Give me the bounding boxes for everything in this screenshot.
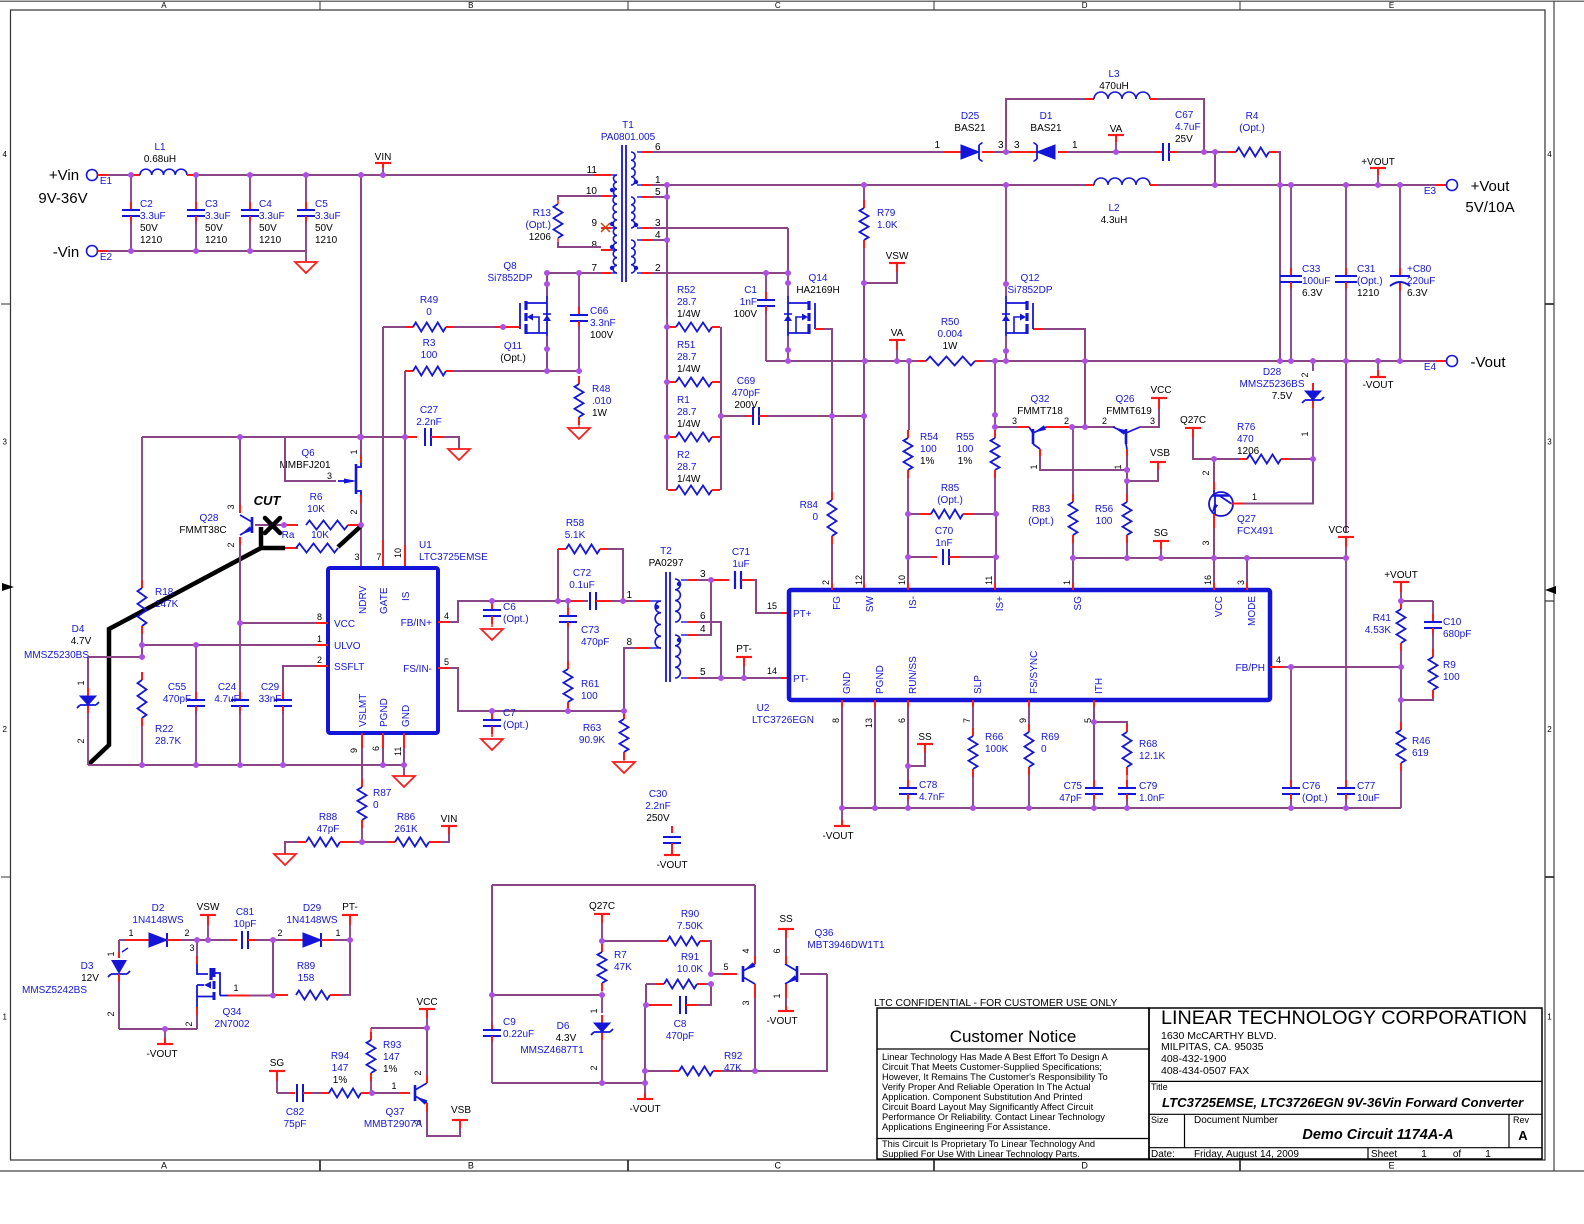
capacitor C5: [297, 175, 341, 251]
port E1 +Vin: [38, 167, 112, 207]
svg-text:2: 2: [1300, 372, 1310, 377]
wire U1 FB/IN+ pin4: [438, 601, 492, 622]
svg-text:7: 7: [962, 718, 972, 723]
svg-text:E: E: [1389, 1, 1394, 10]
svg-text:C73: C73: [581, 625, 600, 636]
svg-text:1: 1: [233, 983, 238, 993]
capacitor C76: [1282, 667, 1328, 808]
svg-text:R41: R41: [1373, 613, 1392, 624]
svg-text:470pF: 470pF: [163, 694, 191, 705]
svg-text:1: 1: [391, 1081, 396, 1091]
svg-text:7.5V: 7.5V: [1272, 391, 1293, 402]
svg-text:408-432-1900: 408-432-1900: [1161, 1053, 1227, 1065]
svg-text:(Opt.): (Opt.): [1028, 516, 1054, 527]
svg-text:R49: R49: [420, 295, 439, 306]
svg-text:28.7: 28.7: [677, 352, 697, 363]
svg-text:2: 2: [2, 725, 7, 734]
svg-text:3: 3: [700, 569, 706, 580]
wire T2 pin3 row: [697, 577, 714, 583]
svg-text:0.22uF: 0.22uF: [503, 1029, 534, 1040]
svg-text:1: 1: [1547, 1012, 1552, 1021]
wire IS- pin10: [907, 514, 909, 590]
wire SSFLT row: [283, 666, 328, 695]
svg-text:C10: C10: [1443, 617, 1462, 628]
svg-text:3: 3: [1201, 540, 1211, 545]
svg-text:100uF: 100uF: [1302, 276, 1330, 287]
svg-text:10: 10: [897, 575, 907, 585]
svg-text:Document Number: Document Number: [1194, 1115, 1279, 1126]
svg-text:28.7: 28.7: [677, 462, 697, 473]
svg-text:R84: R84: [800, 500, 819, 511]
svg-text:Customer Notice: Customer Notice: [950, 1027, 1077, 1046]
svg-text:Rev: Rev: [1513, 1115, 1530, 1125]
wire Q36 base (left): [708, 962, 737, 977]
capacitor C4: [241, 175, 285, 251]
svg-text:C1: C1: [744, 285, 757, 296]
power VIN (R86): [441, 814, 458, 834]
svg-text:50V: 50V: [205, 223, 223, 234]
svg-text:(Opt.): (Opt.): [937, 495, 963, 506]
svg-text:100: 100: [1096, 516, 1113, 527]
svg-text:R13: R13: [533, 208, 552, 219]
svg-text:MMSZ5242BS: MMSZ5242BS: [22, 985, 87, 996]
resistor R87: [358, 779, 392, 842]
svg-text:470pF: 470pF: [732, 388, 760, 399]
svg-text:VA: VA: [1110, 124, 1123, 135]
svg-text:R48: R48: [592, 384, 611, 395]
resistor R48: [575, 376, 612, 428]
transformer T2: [626, 546, 706, 682]
svg-text:619: 619: [1412, 748, 1429, 759]
svg-text:D1: D1: [1040, 111, 1053, 122]
resistor R85: [905, 483, 999, 519]
wire +Vout rail: [651, 182, 1446, 188]
svg-text:HA2169H: HA2169H: [796, 285, 839, 296]
svg-text:MMBT2907A: MMBT2907A: [364, 1119, 423, 1130]
svg-text:4.7uF: 4.7uF: [1175, 122, 1201, 133]
svg-text:C: C: [775, 1, 781, 10]
resistor R55: [956, 361, 1000, 514]
port E4 -Vout: [1424, 354, 1506, 373]
svg-text:13: 13: [864, 718, 874, 728]
transistor Q26: [1102, 394, 1155, 470]
svg-text:C6: C6: [503, 602, 516, 613]
svg-text:U1: U1: [419, 540, 432, 551]
svg-text:IS+: IS+: [995, 596, 1006, 611]
resistor R69: [1025, 700, 1060, 808]
svg-text:6: 6: [371, 746, 381, 751]
svg-text:1206: 1206: [529, 232, 552, 243]
svg-text:Si7852DP: Si7852DP: [1007, 285, 1052, 296]
svg-text:1: 1: [1029, 464, 1039, 469]
wire -Vout rail: [766, 358, 1446, 364]
resistor R90: [602, 909, 711, 974]
resistor R86: [362, 812, 449, 847]
svg-text:BAS21: BAS21: [1030, 123, 1062, 134]
svg-text:D28: D28: [1263, 367, 1282, 378]
svg-text:+VOUT: +VOUT: [1361, 157, 1395, 168]
svg-text:VCC: VCC: [1328, 525, 1349, 536]
svg-text:0.68uH: 0.68uH: [144, 154, 176, 165]
resistor R18: [138, 437, 179, 645]
wire ladder right rail: [718, 327, 724, 490]
svg-text:1: 1: [76, 680, 86, 685]
svg-text:PT-: PT-: [342, 902, 358, 913]
svg-text:10K: 10K: [311, 530, 329, 541]
svg-text:1%: 1%: [920, 456, 935, 467]
svg-text:0: 0: [1041, 744, 1047, 755]
svg-text:4: 4: [700, 624, 706, 635]
svg-text:D2: D2: [152, 903, 165, 914]
svg-text:Verify Proper And Reliable Ope: Verify Proper And Reliable Operation In …: [882, 1082, 1091, 1092]
svg-text:4.7V: 4.7V: [71, 636, 92, 647]
svg-text:R6: R6: [310, 492, 323, 503]
svg-text:C77: C77: [1357, 781, 1376, 792]
svg-text:R87: R87: [373, 788, 392, 799]
svg-text:Q34: Q34: [223, 1007, 242, 1018]
capacitor C81: [230, 907, 273, 949]
svg-text:R85: R85: [941, 483, 960, 494]
svg-text:7: 7: [376, 552, 381, 562]
svg-text:VCC: VCC: [1214, 596, 1225, 617]
svg-text:5: 5: [723, 962, 728, 972]
svg-text:C29: C29: [261, 682, 280, 693]
svg-text:R66: R66: [985, 732, 1004, 743]
svg-text:SG: SG: [270, 1058, 285, 1069]
svg-text:PT+: PT+: [793, 609, 812, 620]
svg-text:A: A: [161, 1, 167, 10]
svg-text:1210: 1210: [259, 235, 282, 246]
svg-text:VSW: VSW: [197, 902, 220, 913]
svg-text:1.0nF: 1.0nF: [1139, 793, 1165, 804]
wire VIN to Q6 drain: [358, 175, 364, 455]
svg-text:A: A: [161, 1161, 167, 1171]
wire Q12 gate run: [1033, 329, 1085, 427]
svg-text:(Opt.): (Opt.): [503, 720, 529, 731]
svg-text:VCC: VCC: [416, 997, 437, 1008]
svg-text:2.2nF: 2.2nF: [416, 417, 442, 428]
wire SW vertical: [861, 280, 867, 590]
ground (R88): [274, 854, 296, 865]
svg-text:VCC: VCC: [1150, 385, 1171, 396]
wire Q26 emitter: [1124, 449, 1130, 502]
svg-text:47K: 47K: [614, 962, 632, 973]
inductor L2: [1086, 178, 1158, 226]
svg-text:FMMT718: FMMT718: [1017, 406, 1063, 417]
resistor R2: [668, 450, 720, 495]
svg-text:Q12: Q12: [1021, 273, 1040, 284]
svg-text:5: 5: [444, 657, 449, 667]
svg-text:6: 6: [772, 948, 782, 953]
svg-text:R79: R79: [877, 208, 896, 219]
svg-text:R83: R83: [1032, 504, 1051, 515]
svg-text:D6: D6: [557, 1021, 570, 1032]
wire IS line: [402, 371, 408, 568]
wire U2 PGND pin13: [874, 700, 876, 808]
svg-text:D29: D29: [303, 903, 322, 914]
svg-text:-VOUT: -VOUT: [766, 1016, 797, 1027]
wire U2 GND pin8: [839, 700, 845, 811]
svg-text:D4: D4: [72, 624, 85, 635]
svg-text:147K: 147K: [155, 599, 179, 610]
svg-text:C70: C70: [935, 526, 954, 537]
svg-text:2: 2: [1064, 416, 1069, 426]
svg-text:1: 1: [1062, 580, 1072, 585]
svg-text:1/4W: 1/4W: [677, 364, 701, 375]
svg-text:3: 3: [2, 437, 7, 446]
ground (U1 GND): [393, 776, 415, 787]
wire node 437 row: [142, 434, 405, 440]
svg-text:MODE: MODE: [1247, 596, 1258, 626]
svg-text:-VOUT: -VOUT: [822, 831, 853, 842]
svg-text:FMMT38C: FMMT38C: [179, 525, 226, 536]
resistor R49: [383, 295, 519, 332]
svg-text:15: 15: [767, 601, 777, 611]
svg-text:100: 100: [421, 350, 438, 361]
svg-text:BAS21: BAS21: [954, 123, 986, 134]
svg-text:1: 1: [772, 993, 782, 998]
wire T1 pin3 to Q14 drain: [651, 228, 788, 273]
svg-text:1: 1: [1300, 431, 1310, 436]
svg-text:50V: 50V: [259, 223, 277, 234]
svg-text:3.3uF: 3.3uF: [315, 211, 341, 222]
svg-text:IS: IS: [401, 591, 412, 601]
svg-text:470uH: 470uH: [1099, 81, 1128, 92]
power +VOUT (R41): [1384, 570, 1418, 601]
svg-text:75pF: 75pF: [284, 1119, 307, 1130]
svg-text:Size: Size: [1151, 1115, 1169, 1125]
svg-text:12.1K: 12.1K: [1139, 751, 1165, 762]
transistor Q6 (JFET): [279, 448, 361, 515]
svg-text:RUN/SS: RUN/SS: [908, 656, 919, 694]
power PT- (D29): [342, 902, 358, 940]
svg-text:Date:: Date:: [1151, 1149, 1175, 1160]
svg-text:Q6: Q6: [301, 448, 315, 459]
svg-text:8: 8: [591, 240, 597, 251]
svg-text:GATE: GATE: [379, 587, 390, 614]
wire VCC node row: [371, 1025, 430, 1031]
svg-text:D: D: [1082, 1, 1088, 10]
svg-text:PGND: PGND: [875, 665, 886, 694]
svg-text:E3: E3: [1424, 186, 1437, 197]
svg-text:IS-: IS-: [908, 596, 919, 609]
svg-text:D3: D3: [81, 961, 94, 972]
resistor R92: [642, 1051, 755, 1076]
svg-text:3.3nF: 3.3nF: [590, 318, 616, 329]
svg-text:E1: E1: [100, 176, 113, 187]
power VCC (rail): [1328, 361, 1354, 558]
power VCC (Q37): [416, 997, 437, 1028]
svg-text:Q11: Q11: [504, 341, 523, 352]
svg-text:10pF: 10pF: [234, 919, 257, 930]
capacitor C30: [645, 789, 681, 850]
svg-text:C69: C69: [737, 376, 756, 387]
svg-text:11: 11: [587, 165, 598, 176]
svg-text:147: 147: [383, 1052, 400, 1063]
power PT- (T2): [736, 644, 752, 678]
svg-text:1%: 1%: [958, 456, 973, 467]
resistor R51: [668, 340, 720, 387]
wire D2 row: [119, 937, 353, 952]
svg-text:1: 1: [128, 928, 133, 938]
resistor R46: [1397, 700, 1431, 808]
svg-text:680pF: 680pF: [1443, 629, 1471, 640]
transistor Q8: [487, 261, 551, 336]
resistor R4: [1215, 111, 1280, 185]
diode D6 (zener): [520, 995, 613, 1083]
svg-text:5: 5: [700, 667, 706, 678]
svg-text:C2: C2: [140, 199, 153, 210]
svg-text:470pF: 470pF: [581, 637, 609, 648]
wire SG/VCC rail: [1070, 555, 1349, 561]
svg-text:R50: R50: [941, 317, 960, 328]
wire -VOUT rail (U2): [842, 805, 1401, 811]
resistor R58: [558, 518, 623, 601]
transistor Q32: [1012, 394, 1069, 470]
resistor R88: [285, 812, 362, 854]
svg-text:C76: C76: [1302, 781, 1321, 792]
wire U2 SG pin1: [1072, 558, 1074, 590]
wire VCC row to U1: [240, 622, 328, 624]
capacitor C33: [1280, 185, 1330, 361]
svg-text:Application. Component Substit: Application. Component Substitution And …: [882, 1092, 1083, 1102]
capacitor C29: [259, 682, 292, 765]
resistor R56: [1095, 494, 1132, 558]
svg-text:3: 3: [998, 140, 1004, 151]
wire -VOUT row (D3): [119, 1026, 197, 1032]
text LTC confidential: [874, 998, 1117, 1009]
ground (C7): [481, 739, 503, 750]
svg-text:L3: L3: [1108, 69, 1120, 80]
svg-text:VIN: VIN: [375, 152, 392, 163]
svg-text:R93: R93: [383, 1040, 402, 1051]
power SS (RUN/SS): [908, 732, 933, 766]
power -VOUT (C30): [656, 850, 687, 871]
svg-text:6.3V: 6.3V: [1302, 288, 1323, 299]
svg-text:4: 4: [1276, 655, 1281, 665]
svg-text:2: 2: [277, 928, 282, 938]
power +VOUT (output): [1361, 157, 1395, 185]
svg-text:MMSZ5230BS: MMSZ5230BS: [24, 650, 89, 661]
svg-text:2: 2: [1201, 470, 1211, 475]
svg-text:VSB: VSB: [1150, 448, 1170, 459]
svg-text:C81: C81: [236, 907, 255, 918]
svg-text:90.9K: 90.9K: [579, 735, 605, 746]
svg-text:E2: E2: [100, 252, 113, 263]
svg-text:100V: 100V: [590, 330, 614, 341]
svg-text:1210: 1210: [315, 235, 338, 246]
wire U2 PT+ pin15 stub: [767, 601, 789, 613]
wire Q28 emitter to VCC row: [237, 537, 243, 626]
wire Q32 emitter row: [1040, 449, 1130, 473]
svg-text:16: 16: [1203, 575, 1213, 585]
svg-text:2: 2: [821, 580, 831, 585]
svg-text:2: 2: [1547, 725, 1552, 734]
svg-text:2: 2: [413, 1070, 423, 1075]
svg-text:Q28: Q28: [200, 513, 219, 524]
svg-text:12V: 12V: [81, 973, 99, 984]
wire FB row y711: [489, 708, 627, 714]
svg-text:ULVO: ULVO: [334, 641, 361, 652]
svg-text:R3: R3: [423, 338, 436, 349]
svg-text:SS: SS: [779, 914, 793, 925]
svg-text:SS: SS: [918, 732, 932, 743]
wire T2 pin5 row PT-: [697, 675, 781, 681]
svg-text:However, It Remains The Custom: However, It Remains The Customer's Respo…: [882, 1072, 1108, 1082]
svg-text:FS/SYNC: FS/SYNC: [1029, 651, 1040, 694]
power SS (Q36): [778, 914, 794, 938]
power VSW (D2): [197, 902, 220, 940]
svg-text:250V: 250V: [646, 813, 670, 824]
wire R41 bottom node: [1400, 667, 1402, 700]
svg-text:11: 11: [393, 747, 403, 756]
svg-text:1/4W: 1/4W: [677, 419, 701, 430]
capacitor C78: [899, 780, 945, 808]
svg-text:3: 3: [189, 943, 194, 953]
svg-text:28.7K: 28.7K: [155, 736, 181, 747]
svg-text:C4: C4: [259, 199, 272, 210]
svg-text:PA0801.005: PA0801.005: [601, 132, 656, 143]
svg-text:R88: R88: [319, 812, 338, 823]
svg-text:+C80: +C80: [1407, 264, 1432, 275]
svg-text:C24: C24: [218, 682, 237, 693]
resistor R54: [904, 361, 939, 514]
capacitor C70: [905, 526, 999, 565]
svg-text:3: 3: [327, 471, 332, 481]
svg-text:3.3uF: 3.3uF: [140, 211, 166, 222]
resistor R50: [909, 317, 983, 366]
svg-text:R76: R76: [1237, 422, 1256, 433]
svg-text:28.7: 28.7: [677, 407, 697, 418]
svg-text:SLP: SLP: [973, 675, 984, 694]
diode D25: [944, 111, 1004, 162]
svg-text:1: 1: [335, 928, 340, 938]
svg-text:1: 1: [589, 1008, 599, 1013]
svg-text:5V/10A: 5V/10A: [1465, 199, 1514, 216]
svg-text:0.1uF: 0.1uF: [569, 580, 595, 591]
resistor R9: [1398, 649, 1460, 703]
svg-text:SG: SG: [1073, 596, 1084, 611]
resistor R7: [598, 941, 633, 998]
svg-text:Q32: Q32: [1031, 394, 1050, 405]
svg-text:0: 0: [373, 800, 379, 811]
capacitor C31: [1335, 185, 1383, 361]
transistor Q36 (NPN half): [772, 938, 797, 1006]
svg-text:C67: C67: [1175, 110, 1194, 121]
wire Q14 gate: [815, 329, 832, 416]
svg-text:FCX491: FCX491: [1237, 526, 1274, 537]
junction dots overlay: [128, 149, 1404, 1096]
resistor R41: [1365, 598, 1406, 667]
wire C81-R89 vertical: [272, 940, 274, 995]
svg-text:VSW: VSW: [886, 251, 909, 262]
svg-text:C7: C7: [503, 708, 516, 719]
resistor Ra: [282, 530, 338, 553]
svg-text:R63: R63: [583, 723, 602, 734]
capacitor C2: [122, 175, 166, 251]
svg-text:1/4W: 1/4W: [677, 474, 701, 485]
power VA (top): [1108, 124, 1124, 152]
diode D1: [1012, 111, 1078, 162]
svg-text:(Opt.): (Opt.): [525, 220, 551, 231]
svg-text:0.004: 0.004: [937, 329, 962, 340]
wire T1 pin5/4 vertical: [651, 185, 670, 319]
svg-text:14: 14: [767, 666, 777, 676]
svg-text:E: E: [1389, 1161, 1395, 1171]
svg-text:2: 2: [1102, 416, 1107, 426]
power Q27C (R7): [589, 901, 615, 944]
svg-text:Si7852DP: Si7852DP: [487, 273, 532, 284]
